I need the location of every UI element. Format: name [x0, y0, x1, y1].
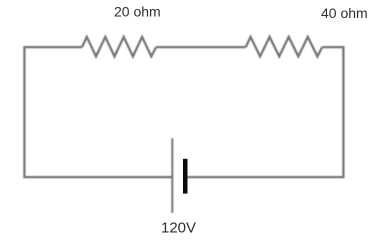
- battery B1 positive plate (short thick): [183, 159, 188, 194]
- svg-text:20 ohm: 20 ohm: [114, 4, 161, 20]
- resistor R2 40 ohm: [246, 37, 322, 57]
- svg-text:120V: 120V: [161, 219, 196, 236]
- wire top-middle segment: [156, 46, 246, 48]
- wire loop left: battery thin plate, bottom-left, left side, top-left, to resistor R1: [24, 47, 172, 177]
- battery B1 negative plate (long thin): [171, 138, 173, 213]
- svg-text:40 ohm: 40 ohm: [321, 5, 368, 21]
- wire loop right: top-right, right side, bottom-right to battery thick plate: [187, 47, 343, 177]
- resistor R1 20 ohm: [82, 37, 156, 57]
